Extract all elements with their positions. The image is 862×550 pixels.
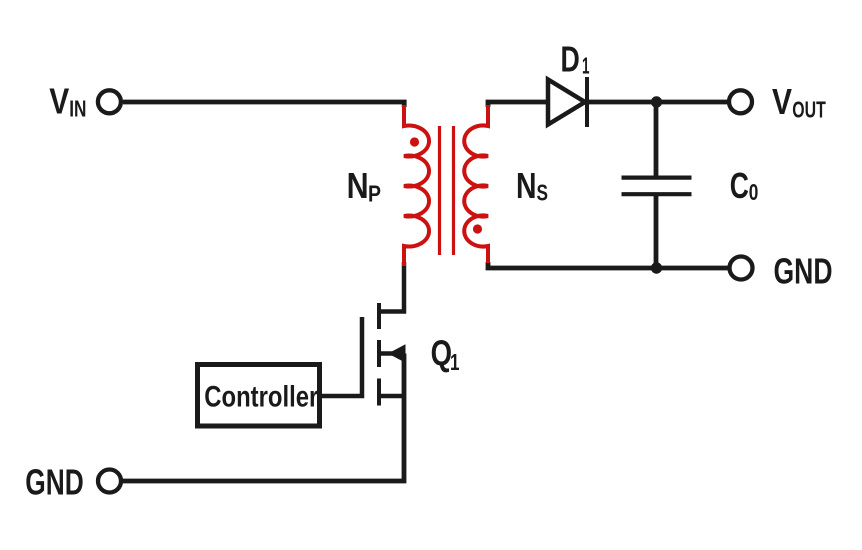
svg-text:GND: GND	[25, 462, 84, 503]
svg-text:IN: IN	[69, 96, 86, 122]
svg-text:1: 1	[450, 349, 460, 375]
svg-text:1: 1	[582, 53, 590, 79]
svg-text:N: N	[347, 165, 369, 206]
svg-text:C: C	[730, 165, 749, 206]
svg-text:0: 0	[749, 179, 759, 205]
svg-text:S: S	[537, 180, 549, 206]
svg-text:P: P	[368, 180, 381, 206]
svg-text:Q: Q	[431, 333, 452, 374]
svg-text:V: V	[49, 81, 70, 122]
svg-text:N: N	[516, 165, 537, 206]
svg-text:V: V	[772, 81, 793, 122]
svg-text:Controller: Controller	[204, 381, 318, 414]
svg-text:OUT: OUT	[792, 97, 826, 123]
svg-text:GND: GND	[774, 251, 833, 292]
svg-text:D: D	[561, 39, 580, 80]
